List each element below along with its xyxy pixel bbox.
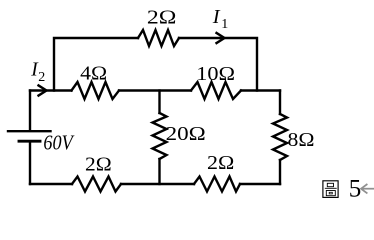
label figure 5 caption: hand-drawn CJK glyph for tu (picture) [323,181,338,198]
wire middle: between 4ohm and 10ohm [119,89,191,91]
wire top: right segment with corner down to middle node [179,38,257,91]
svg-text:20Ω: 20Ω [166,123,206,145]
resistor R top 2ohm zigzag [138,30,179,46]
resistor R bottom-right 2ohm zigzag [194,177,240,192]
wire 8ohm branch bottom stub [279,160,281,184]
svg-text:8Ω: 8Ω [288,129,315,151]
arrow left return mark (gray) [361,184,374,193]
wire top: left segment of top branch [54,38,138,91]
wire 20ohm branch bottom stub [158,159,160,184]
wire bottom: middle segment [121,183,194,185]
resistor R 20ohm vertical zigzag [153,113,167,159]
svg-text:4Ω: 4Ω [80,63,107,85]
wire middle: right end to 8ohm corner [241,89,280,91]
arrow I2 current arrowhead on middle wire [38,85,47,96]
svg-text:I: I [212,6,221,28]
battery 60V short plate [19,140,40,143]
svg-text:2Ω: 2Ω [85,154,112,176]
resistor R 10ohm zigzag [191,82,241,99]
svg-text:5: 5 [349,176,362,203]
wire left rail upper: from middle wire to battery top plate [29,91,31,131]
arrow I1 current arrowhead on top wire [216,32,225,43]
svg-text:2Ω: 2Ω [147,6,177,28]
battery 60V long plate [8,130,51,132]
svg-text:2: 2 [38,70,45,85]
svg-text:1: 1 [221,17,228,32]
resistor R bottom-left 2ohm zigzag [72,177,121,192]
wire left rail lower: from battery to bottom wire [29,143,31,185]
wire 20ohm branch top stub [158,91,160,114]
wire middle: left end from left rail [30,89,72,91]
resistor R 4ohm zigzag [72,82,120,99]
svg-text:2Ω: 2Ω [207,152,234,174]
svg-text:60V: 60V [43,131,75,155]
svg-text:10Ω: 10Ω [196,63,235,85]
resistor R 8ohm vertical zigzag [273,114,287,160]
wire 8ohm branch top stub [279,91,281,115]
wire bottom: right segment to 8ohm corner [240,183,280,185]
wire bottom: left segment [30,183,72,185]
